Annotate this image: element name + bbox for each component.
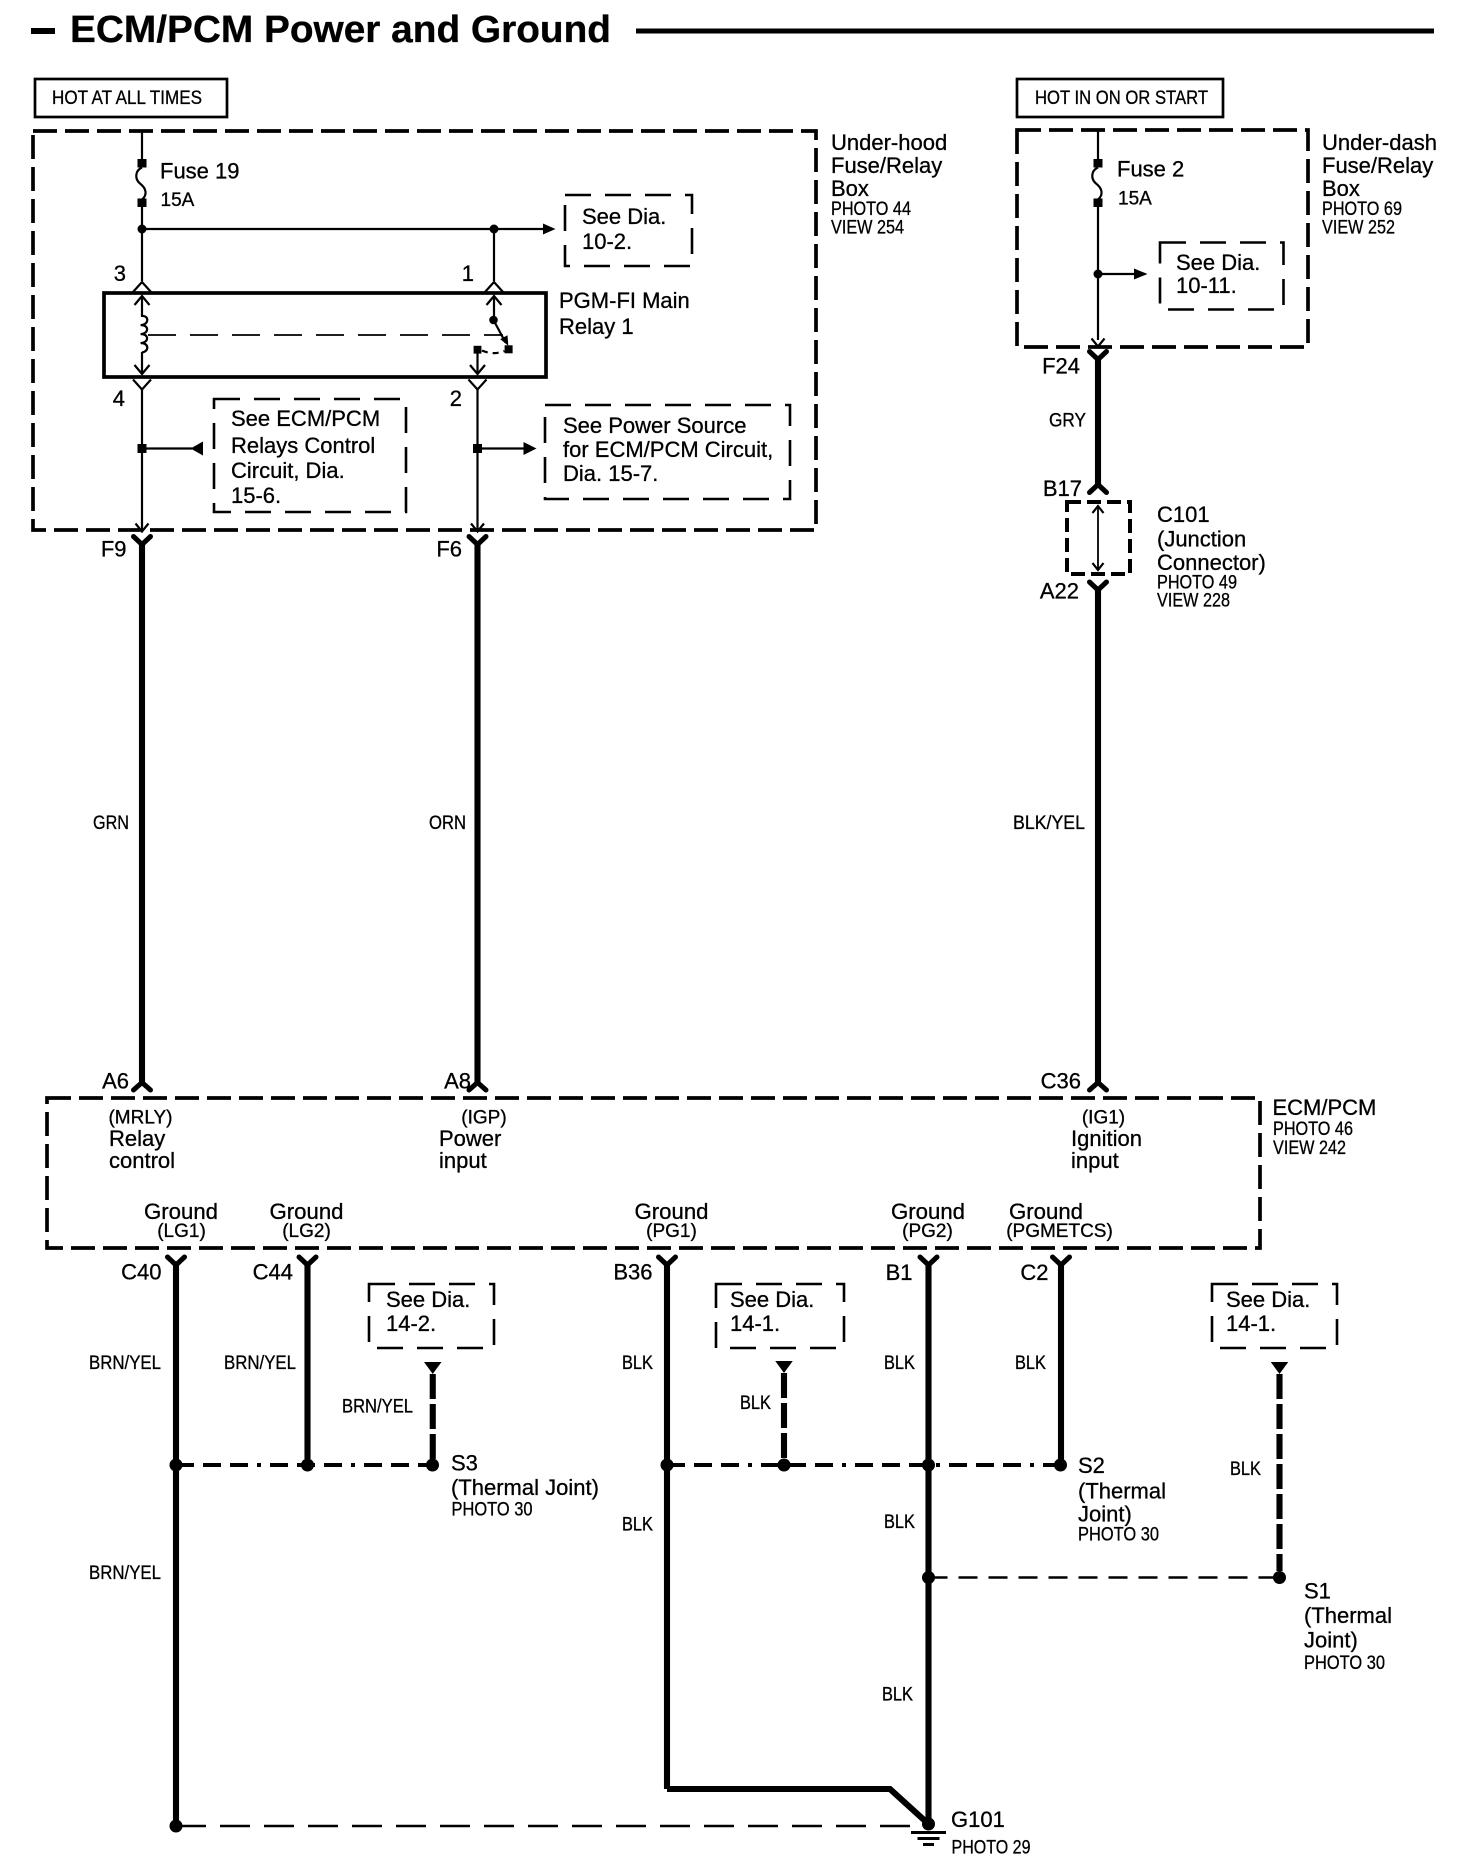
BLK label B36 upper (622, 1353, 653, 1374)
svg-text:14-2.: 14-2. (386, 1311, 436, 1336)
pin 1 chevron (485, 282, 503, 292)
see dia 14-1 box left (716, 1284, 844, 1348)
svg-text:GRY: GRY (1049, 411, 1086, 432)
svg-text:See Dia.: See Dia. (730, 1287, 814, 1312)
under-dash box label (1322, 130, 1437, 239)
BLK label B1 mid (884, 1512, 915, 1533)
svg-text:ECM/PCM: ECM/PCM (1273, 1095, 1377, 1120)
svg-text:A6: A6 (102, 1069, 129, 1094)
S3 node on C40 wire (170, 1459, 183, 1472)
svg-text:(Thermal Joint): (Thermal Joint) (451, 1475, 599, 1500)
svg-text:Joint): Joint) (1078, 1502, 1132, 1527)
ground LG2 label (270, 1199, 344, 1242)
svg-text:VIEW 252: VIEW 252 (1322, 218, 1395, 239)
ORN label (429, 813, 466, 834)
IG1 ignition input pin label (1071, 1108, 1142, 1174)
svg-text:BLK: BLK (622, 1515, 653, 1536)
relay internal dashed line (148, 334, 503, 336)
svg-text:S2: S2 (1078, 1453, 1105, 1478)
svg-text:See Dia.: See Dia. (582, 204, 666, 229)
BLK label B1 upper (884, 1353, 915, 1374)
junction square on pin2 wire (473, 444, 482, 453)
title: ECM/PCM Power and Ground (70, 9, 611, 51)
svg-text:Fuse/Relay: Fuse/Relay (831, 153, 942, 178)
S1 junction line (929, 1576, 1280, 1579)
A8 label (444, 1069, 471, 1094)
relay coil to pin4 with down arrow (135, 352, 150, 374)
svg-text:HOT IN ON OR START: HOT IN ON OR START (1035, 88, 1208, 109)
svg-text:15A: 15A (1118, 189, 1152, 210)
svg-text:PHOTO 30: PHOTO 30 (1304, 1653, 1385, 1674)
svg-text:(LG2): (LG2) (282, 1221, 331, 1242)
arrow from relays-control box into wire (142, 442, 203, 456)
ground PG1 label (635, 1199, 709, 1242)
svg-text:ORN: ORN (429, 813, 466, 834)
ground PGMETCS label (1006, 1199, 1113, 1242)
svg-text:BRN/YEL: BRN/YEL (224, 1353, 296, 1374)
B17 connector (1090, 485, 1107, 493)
wire pin2 down to F6 (476, 390, 478, 532)
junction square on pin4 wire (138, 444, 147, 453)
wire GRN F9 to A6 (139, 543, 145, 1082)
under-hood fuse/relay box (dashed) (33, 131, 816, 530)
A22 connector (1090, 582, 1107, 590)
pin 1 label (462, 261, 474, 286)
relay switch to pin2 with down arrow (470, 354, 485, 375)
wire C2 down to S2 (1058, 1264, 1064, 1462)
arrow to see dia 10-2 (494, 224, 556, 235)
svg-text:BLK/YEL: BLK/YEL (1013, 813, 1085, 834)
GRY label (1049, 411, 1086, 432)
svg-text:(LG1): (LG1) (157, 1221, 206, 1242)
arrow to power source box (478, 442, 537, 455)
svg-text:Box: Box (831, 176, 869, 201)
svg-text:10-11.: 10-11. (1176, 273, 1237, 298)
wire B1 down to G101 (925, 1264, 931, 1824)
svg-text:PGM-FI Main: PGM-FI Main (559, 288, 690, 313)
svg-text:input: input (1071, 1148, 1119, 1173)
svg-text:Circuit, Dia.: Circuit, Dia. (231, 458, 345, 483)
svg-text:A8: A8 (444, 1069, 471, 1094)
C101 internal double arrow (1093, 506, 1104, 570)
fuse F2 symbol (1092, 159, 1102, 207)
svg-text:C36: C36 (1041, 1069, 1081, 1094)
fuse 19 label (160, 159, 240, 212)
C2 connector (1053, 1257, 1070, 1265)
S2 node on B1 wire (922, 1459, 935, 1472)
C36 connector (1090, 1083, 1107, 1091)
node above relay pin 1 (490, 225, 499, 234)
BLK label S1 drop (1230, 1459, 1261, 1480)
pin 4 label (113, 386, 125, 411)
svg-text:BLK: BLK (1015, 1353, 1046, 1374)
S3 node at thermal joint (426, 1459, 439, 1472)
svg-text:Under-dash: Under-dash (1322, 130, 1437, 155)
svg-text:B36: B36 (613, 1260, 652, 1285)
svg-text:S3: S3 (451, 1451, 478, 1476)
pin 3 chevron (133, 282, 151, 292)
svg-text:F24: F24 (1042, 354, 1080, 379)
svg-text:PHOTO 30: PHOTO 30 (1078, 1525, 1159, 1546)
BRN/YEL label C40 lower (89, 1563, 161, 1584)
svg-text:S1: S1 (1304, 1579, 1331, 1604)
S2 node on 14-1 drop (778, 1459, 791, 1472)
svg-text:(Junction: (Junction (1157, 527, 1246, 552)
svg-text:BLK: BLK (882, 1685, 913, 1706)
F6 label (436, 537, 462, 562)
svg-text:ECM/PCM Power and Ground: ECM/PCM Power and Ground (70, 9, 611, 51)
C44 label (253, 1260, 293, 1285)
svg-text:BLK: BLK (884, 1353, 915, 1374)
svg-text:(PGMETCS): (PGMETCS) (1006, 1221, 1113, 1242)
HOT IN ON OR START label box (1017, 79, 1223, 117)
B36 wire turn to G101 (667, 1789, 929, 1824)
svg-text:Relays Control: Relays Control (231, 433, 375, 458)
node below fuse 2 (1094, 270, 1103, 279)
svg-text:See Dia.: See Dia. (1176, 250, 1260, 275)
F6 exit arrow (471, 524, 484, 532)
svg-text:See ECM/PCM: See ECM/PCM (231, 406, 380, 431)
see dia 14-2 box (369, 1284, 494, 1348)
wire C44 down to S3 (304, 1264, 310, 1459)
svg-text:GRN: GRN (93, 813, 129, 834)
A8 connector (469, 1083, 486, 1091)
svg-text:VIEW 242: VIEW 242 (1273, 1138, 1346, 1159)
S2 label (1078, 1453, 1166, 1546)
svg-text:HOT AT ALL TIMES: HOT AT ALL TIMES (52, 88, 202, 109)
wire node down to relay pin 3 (141, 229, 143, 281)
svg-text:Fuse 2: Fuse 2 (1117, 157, 1184, 182)
svg-text:1: 1 (462, 261, 474, 286)
B17 label (1043, 476, 1082, 501)
BLK label S2 drop (740, 1393, 771, 1414)
horizontal wire to see dia 10-2 (142, 228, 494, 230)
B36 connector (659, 1257, 676, 1265)
wire B36 down (664, 1264, 670, 1789)
BLK label C2 (1015, 1353, 1046, 1374)
svg-text:15A: 15A (161, 190, 195, 211)
svg-text:See Dia.: See Dia. (1226, 1287, 1310, 1312)
arrow from 14-2 into S3 wire (424, 1362, 442, 1374)
svg-text:input: input (439, 1148, 487, 1173)
S3 label (451, 1451, 599, 1521)
svg-text:Box: Box (1322, 176, 1360, 201)
F9 label (101, 537, 127, 562)
svg-text:14-1.: 14-1. (1226, 1311, 1276, 1336)
node C40 at G101 line (170, 1820, 183, 1833)
A6 label (102, 1069, 129, 1094)
dashed wire 14-1 to S2 (781, 1373, 787, 1459)
A6 connector (134, 1083, 151, 1091)
C40 connector (168, 1257, 185, 1265)
svg-text:(Thermal: (Thermal (1304, 1603, 1392, 1628)
B1 label (886, 1260, 913, 1285)
S2 node on B36 wire (661, 1459, 674, 1472)
title rule (636, 29, 1434, 34)
svg-text:VIEW 228: VIEW 228 (1157, 591, 1230, 612)
wire from box top to fuse 19 (141, 131, 143, 160)
svg-text:control: control (109, 1148, 175, 1173)
IGP power input pin label (439, 1108, 507, 1174)
fuse 2 label (1117, 157, 1184, 210)
svg-text:BRN/YEL: BRN/YEL (342, 1397, 413, 1418)
wire C40 down to G101 line (173, 1264, 179, 1826)
wire GRY F24 to B17 (1095, 358, 1101, 484)
svg-text:4: 4 (113, 386, 125, 411)
svg-text:Dia. 15-7.: Dia. 15-7. (563, 461, 658, 486)
C101 junction connector box (1067, 502, 1130, 574)
arrow from 14-1 into S2 wire (775, 1361, 793, 1373)
svg-text:Relay 1: Relay 1 (559, 314, 634, 339)
relay label (559, 288, 690, 339)
svg-text:G101: G101 (951, 1807, 1005, 1832)
B36 label (613, 1260, 652, 1285)
S2 node at thermal joint (1054, 1459, 1067, 1472)
svg-text:C101: C101 (1157, 502, 1210, 527)
wire fuse 2 to node (1097, 207, 1099, 340)
svg-text:BLK: BLK (1230, 1459, 1261, 1480)
svg-text:Fuse 19: Fuse 19 (160, 159, 240, 184)
wire from box top to fuse 2 (1097, 130, 1099, 160)
svg-text:(PG2): (PG2) (902, 1221, 953, 1242)
C44 connector (299, 1257, 316, 1265)
svg-text:See Dia.: See Dia. (386, 1287, 470, 1312)
relay switch pin1 wire with up arrow (487, 296, 502, 320)
see dia 10-2 box (565, 195, 692, 266)
svg-text:C44: C44 (253, 1260, 293, 1285)
F9 connector (134, 537, 151, 545)
wire pin4 down to F9 (141, 390, 143, 532)
svg-text:PHOTO 29: PHOTO 29 (952, 1838, 1031, 1859)
svg-text:(Thermal: (Thermal (1078, 1479, 1166, 1504)
svg-text:F6: F6 (436, 537, 462, 562)
BLK label B36 lower (622, 1515, 653, 1536)
pin 2 chevron (469, 380, 487, 390)
F24 exit arrow (1092, 339, 1105, 347)
S3 junction line (176, 1463, 433, 1467)
svg-text:BRN/YEL: BRN/YEL (89, 1353, 161, 1374)
see ECM/PCM relays control box (214, 399, 406, 512)
S1 node at thermal joint (1273, 1571, 1286, 1584)
svg-text:Fuse/Relay: Fuse/Relay (1322, 153, 1433, 178)
svg-text:Under-hood: Under-hood (831, 130, 947, 155)
svg-text:C40: C40 (121, 1260, 161, 1285)
under-hood box label (831, 130, 947, 239)
wire fuse to node (141, 207, 143, 229)
BLK/YEL label (1013, 813, 1085, 834)
see dia 10-11 box (1160, 243, 1284, 310)
see power source box (545, 405, 790, 499)
wire BLK/YEL A22 to C36 (1095, 589, 1101, 1082)
svg-text:Joint): Joint) (1304, 1628, 1358, 1653)
ground G101 (911, 1818, 946, 1845)
ECM/PCM box (dashed) (47, 1098, 1260, 1248)
S3 node on C44 wire (301, 1459, 314, 1472)
svg-text:See Power Source: See Power Source (563, 413, 746, 438)
arrow to see dia 10-11 (1098, 269, 1148, 280)
dashed wire 14-1 to S1 (1276, 1374, 1282, 1571)
title dash (31, 28, 55, 34)
wire ORN F6 to A8 (474, 543, 480, 1082)
C36 label (1041, 1069, 1081, 1094)
svg-text:BLK: BLK (740, 1393, 771, 1414)
fuse F19 symbol (136, 159, 146, 207)
pin 3 label (114, 261, 126, 286)
ECM/PCM label block (1273, 1095, 1377, 1159)
arrow from 14-1 into S1 wire (1271, 1362, 1289, 1374)
svg-text:B1: B1 (886, 1260, 913, 1285)
under-dash fuse/relay box (dashed) (1017, 130, 1308, 347)
PGM-FI main relay 1 box (104, 293, 546, 377)
G101 dashed line from C40 (176, 1825, 920, 1828)
svg-text:14-1.: 14-1. (730, 1311, 780, 1336)
pin 4 chevron (133, 380, 151, 390)
C2 label (1020, 1260, 1048, 1285)
svg-text:BRN/YEL: BRN/YEL (89, 1563, 161, 1584)
wire node down to relay pin 1 (493, 229, 495, 281)
relay switch contact (474, 316, 513, 354)
GRN label (93, 813, 129, 834)
svg-text:A22: A22 (1040, 579, 1079, 604)
svg-text:Connector): Connector) (1157, 550, 1266, 575)
svg-text:for ECM/PCM Circuit,: for ECM/PCM Circuit, (563, 437, 773, 462)
svg-text:2: 2 (450, 386, 462, 411)
svg-text:VIEW 254: VIEW 254 (831, 218, 904, 239)
svg-text:B17: B17 (1043, 476, 1082, 501)
relay coil pin3 wire with up arrow (135, 296, 150, 317)
S1 label (1304, 1579, 1392, 1675)
svg-text:BLK: BLK (622, 1353, 653, 1374)
svg-text:3: 3 (114, 261, 126, 286)
svg-text:(PG1): (PG1) (646, 1221, 697, 1242)
BLK label B1 lower (882, 1685, 913, 1706)
ground PG2 label (891, 1199, 965, 1242)
S1 node on B1 wire (922, 1571, 935, 1584)
see dia 14-1 box right (1212, 1284, 1337, 1348)
svg-text:C2: C2 (1020, 1260, 1048, 1285)
A22 label (1040, 579, 1079, 604)
F24 connector (1090, 352, 1107, 360)
HOT AT ALL TIMES label box (35, 79, 227, 117)
C40 label (121, 1260, 161, 1285)
MRLY relay control pin label (108, 1108, 175, 1174)
F24 label (1042, 354, 1080, 379)
B1 connector (920, 1257, 937, 1265)
BRN/YEL label C40 upper (89, 1353, 161, 1374)
svg-text:PHOTO 30: PHOTO 30 (452, 1500, 533, 1521)
S2 junction line (667, 1463, 1061, 1467)
G101 label (951, 1807, 1031, 1859)
relay coil (141, 316, 148, 352)
svg-text:F9: F9 (101, 537, 127, 562)
svg-text:15-6.: 15-6. (231, 483, 281, 508)
F9 exit arrow (136, 524, 149, 532)
svg-text:BLK: BLK (884, 1512, 915, 1533)
BRN/YEL label C44 (224, 1353, 296, 1374)
F6 connector (469, 537, 486, 545)
node at fuse output (138, 225, 147, 234)
C101 label (1157, 502, 1266, 612)
dashed wire 14-2 to S3 (430, 1374, 436, 1459)
pin 2 label (450, 386, 462, 411)
BRN/YEL label S3 drop (342, 1397, 413, 1418)
ground LG1 label (144, 1199, 218, 1242)
svg-text:PHOTO 46: PHOTO 46 (1273, 1119, 1353, 1140)
svg-text:10-2.: 10-2. (582, 229, 632, 254)
